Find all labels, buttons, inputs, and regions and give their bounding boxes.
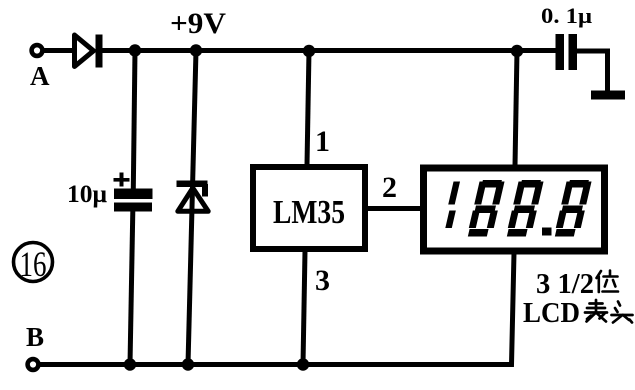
svg-text:1: 1 [315, 125, 330, 158]
svg-text:3 1/2: 3 1/2 [536, 268, 594, 300]
svg-text:A: A [30, 61, 50, 91]
svg-text:2: 2 [382, 171, 397, 204]
svg-text:LM35: LM35 [273, 194, 345, 231]
svg-text:16: 16 [20, 244, 47, 284]
svg-text:0. 1μ: 0. 1μ [541, 3, 593, 28]
svg-text:3: 3 [315, 264, 330, 297]
svg-text:B: B [26, 322, 44, 352]
svg-text:LCD: LCD [523, 297, 580, 329]
svg-text:+9V: +9V [170, 7, 226, 40]
svg-text:10μ: 10μ [67, 181, 107, 208]
